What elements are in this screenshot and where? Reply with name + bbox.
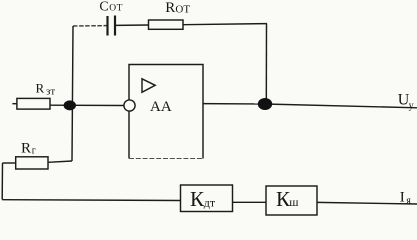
svg-text:I: I [400,190,405,206]
svg-text:ОТ: ОТ [109,4,123,14]
svg-text:R: R [165,0,175,16]
svg-text:зт: зт [46,86,55,98]
svg-text:у: у [409,100,414,111]
svg-text:С: С [99,0,108,15]
svg-text:г: г [32,146,36,157]
svg-text:К: К [190,187,205,211]
svg-text:R: R [36,81,45,96]
svg-text:ОТ: ОТ [175,3,190,15]
svg-text:дт: дт [204,195,216,209]
svg-text:я: я [406,195,411,206]
svg-text:АА: АА [150,99,172,115]
svg-text:ш: ш [289,195,299,209]
svg-text:R: R [21,140,31,156]
